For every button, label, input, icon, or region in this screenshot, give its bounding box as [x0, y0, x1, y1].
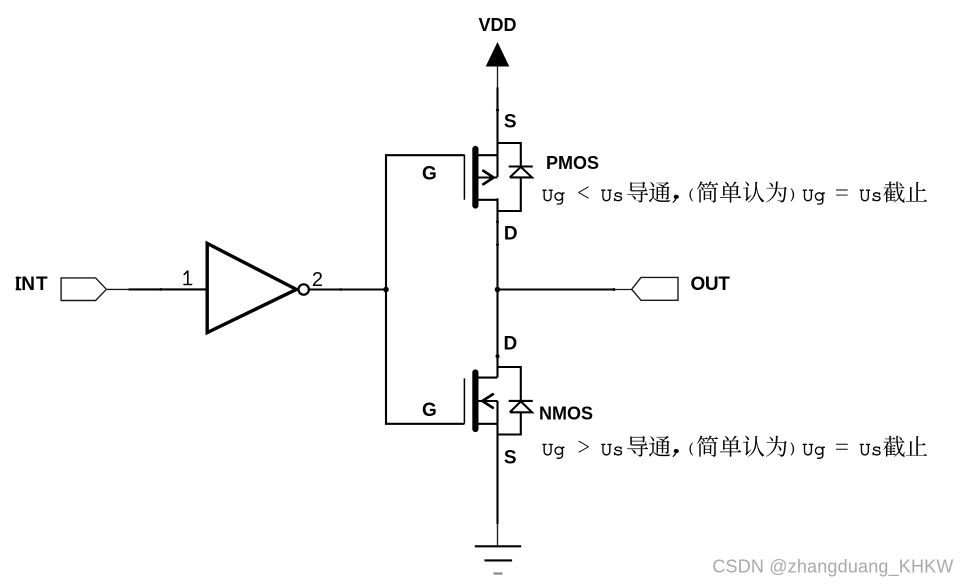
svg-text:OUT: OUT — [691, 274, 731, 295]
svg-text:NMOS: NMOS — [539, 404, 593, 424]
svg-text:2: 2 — [312, 269, 323, 291]
svg-text:PMOS: PMOS — [546, 153, 599, 173]
svg-text:G: G — [422, 400, 437, 421]
svg-text:S: S — [504, 447, 517, 468]
svg-text:S: S — [504, 111, 517, 132]
svg-text:D: D — [504, 224, 518, 245]
svg-text:D: D — [504, 333, 518, 354]
svg-text:VDD: VDD — [478, 15, 516, 35]
svg-text:CSDN @zhangduang_KHKW: CSDN @zhangduang_KHKW — [712, 557, 953, 578]
svg-text:G: G — [422, 163, 437, 184]
